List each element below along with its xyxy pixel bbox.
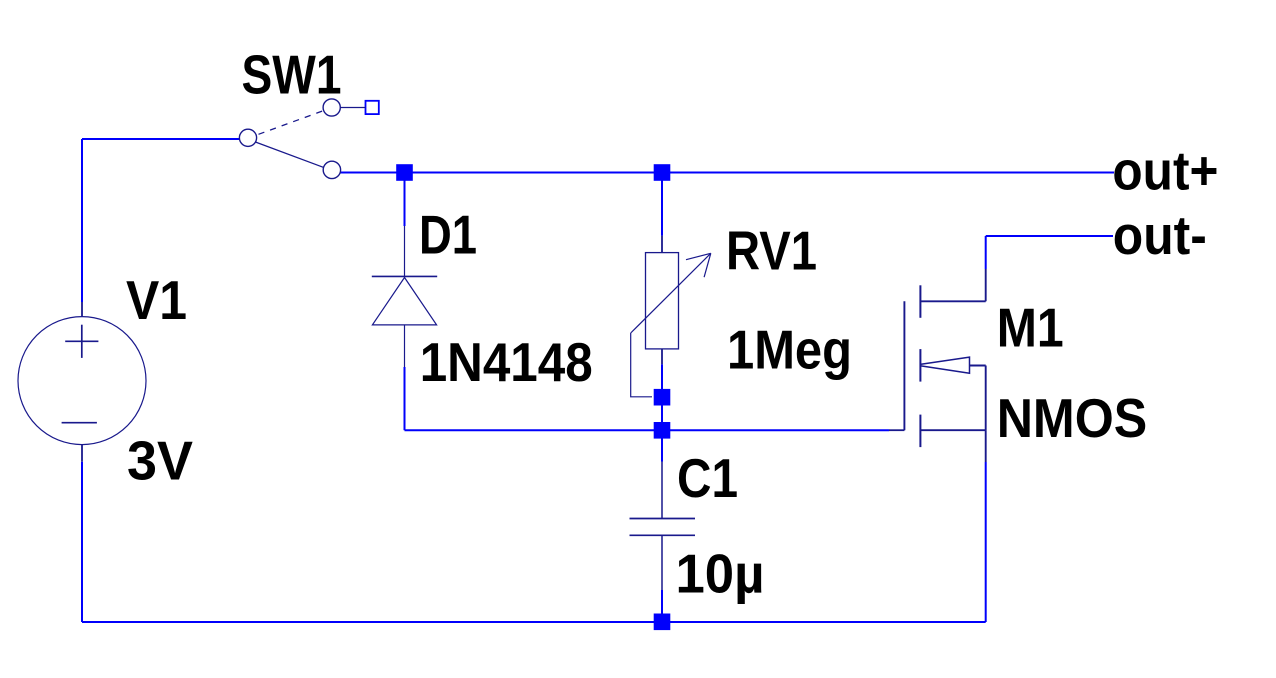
- svg-text:M1: M1: [997, 298, 1064, 359]
- svg-text:out+: out+: [1112, 140, 1218, 201]
- svg-text:SW1: SW1: [242, 45, 342, 106]
- svg-text:V1: V1: [126, 270, 187, 331]
- svg-text:3V: 3V: [127, 431, 193, 492]
- svg-text:NMOS: NMOS: [997, 388, 1147, 449]
- svg-text:10µ: 10µ: [676, 544, 765, 605]
- svg-text:C1: C1: [677, 448, 738, 509]
- svg-text:1N4148: 1N4148: [420, 332, 593, 393]
- svg-text:out-: out-: [1113, 205, 1207, 266]
- svg-text:1Meg: 1Meg: [727, 319, 852, 380]
- svg-text:RV1: RV1: [726, 221, 817, 282]
- svg-text:D1: D1: [419, 205, 477, 266]
